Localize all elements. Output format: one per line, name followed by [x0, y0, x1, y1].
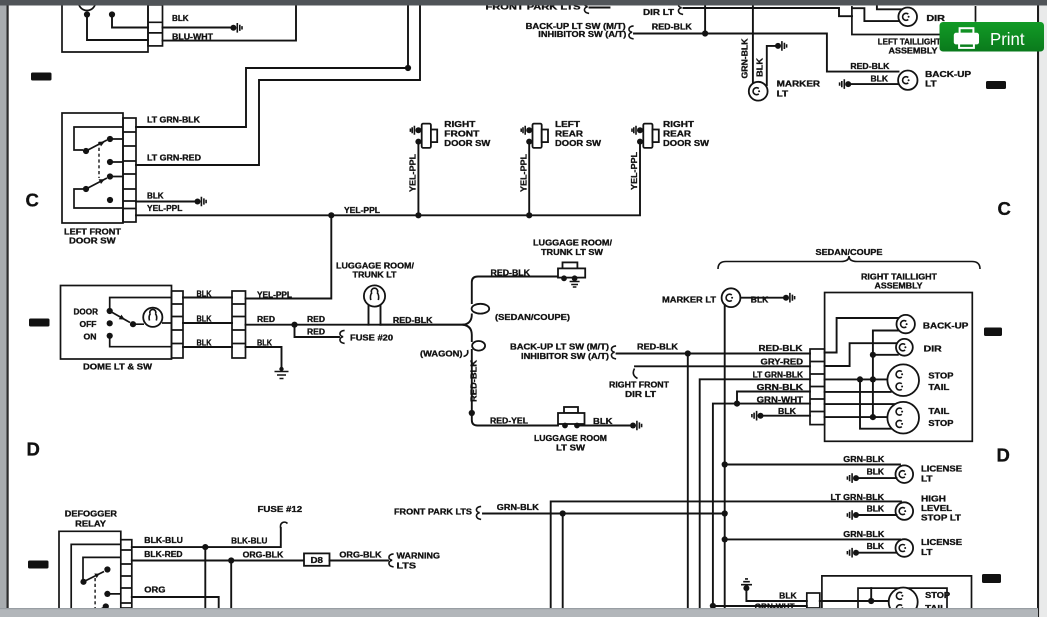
svg-text:ORG-BLK: ORG-BLK [339, 551, 381, 560]
svg-text:RED-BLK: RED-BLK [491, 269, 531, 278]
label GRY-RED [761, 358, 804, 367]
wire GRN-BLK to license lt 2 [725, 538, 900, 540]
wire BLK to ground (door sw) [136, 197, 206, 207]
svg-text:BLK: BLK [867, 505, 885, 514]
wire BLU-WHT going off page top [163, 4, 297, 41]
svg-text:BLK: BLK [593, 417, 613, 426]
svg-text:LT: LT [921, 548, 933, 557]
svg-text:FUSE #20: FUSE #20 [350, 334, 394, 343]
label RIGHT REAR DOOR SW [663, 120, 710, 148]
high level stop lt bulb [896, 502, 914, 520]
BACK-UP bulb [897, 315, 915, 333]
wire LT GRN-BLK to STOP/TAIL bulb [825, 376, 888, 382]
wagon STOP/TAIL bulb [889, 588, 918, 617]
svg-text:D: D [997, 444, 1010, 465]
svg-text:RELAY: RELAY [75, 519, 107, 528]
label BACK-UP [923, 322, 969, 331]
svg-text:RIGHT TAILLIGHT: RIGHT TAILLIGHT [861, 273, 937, 282]
wire BLK license 2 [847, 548, 896, 558]
svg-text:BLK-BLU: BLK-BLU [144, 536, 183, 545]
wire BLK to ground [577, 421, 642, 431]
luggage room trunk lt bulb [364, 285, 385, 306]
svg-text:ORG-BLK: ORG-BLK [243, 551, 284, 560]
wire RED-BLK to left back-up lt [634, 30, 899, 71]
tick mark left 1 [31, 73, 52, 81]
svg-text:D8: D8 [311, 556, 324, 565]
svg-text:LT GRN-BLK: LT GRN-BLK [753, 371, 804, 380]
svg-text:INHIBITOR SW (A/T): INHIBITOR SW (A/T) [538, 30, 626, 39]
label RED-BLK [652, 23, 692, 32]
wire LT GRN-BLK to off page top [136, 4, 411, 127]
label FUSE #20 [350, 334, 394, 343]
wire ORG-BLK to warning lts [330, 554, 394, 567]
labels DOOR OFF ON [74, 307, 99, 341]
dome connector strip 1 [172, 291, 184, 358]
wire LT GRN-BLK to high level stop lt [551, 501, 901, 608]
svg-text:GRN-BLK: GRN-BLK [757, 383, 804, 392]
RED-BLK bus Va down [687, 354, 689, 609]
label LICENSE LT [921, 538, 963, 557]
marker lt top bulb [749, 82, 768, 101]
svg-text:ASSEMBLY: ASSEMBLY [875, 282, 924, 291]
svg-text:LEVEL: LEVEL [921, 504, 952, 513]
wagon connector cell [807, 593, 820, 608]
svg-text:ORG: ORG [144, 586, 165, 595]
svg-text:TRUNK LT SW: TRUNK LT SW [541, 248, 604, 257]
svg-text:ASSEMBLY: ASSEMBLY [889, 47, 939, 56]
wire YEL-PPL drop right front door sw [417, 144, 419, 215]
label DEFOGGER RELAY [65, 509, 117, 528]
svg-text:YEL-PPL: YEL-PPL [409, 154, 418, 192]
label GRN-BLK [843, 455, 884, 464]
print button label [990, 29, 1025, 49]
svg-text:TRUNK LT: TRUNK LT [353, 271, 397, 280]
svg-text:LICENSE: LICENSE [921, 465, 963, 474]
labels TAIL STOP [928, 407, 954, 428]
svg-text:STOP: STOP [928, 371, 954, 380]
svg-text:RED: RED [307, 315, 325, 324]
svg-text:BACK-UP: BACK-UP [923, 322, 969, 331]
left front door switch box [62, 113, 123, 223]
svg-text:BLK: BLK [867, 542, 885, 551]
right front door switch [410, 124, 437, 148]
svg-text:LEFT TAILLIGHT: LEFT TAILLIGHT [878, 38, 941, 47]
svg-text:BLU-WHT: BLU-WHT [172, 33, 213, 42]
label BLK [779, 591, 797, 600]
svg-text:REAR: REAR [555, 130, 583, 139]
dome bulb [143, 308, 162, 327]
wires BLK x3 between strips [183, 298, 232, 348]
interior lamp assembly box (top left, cut off) [62, 0, 148, 52]
label RIGHT FRONT DIR LT [609, 381, 669, 400]
svg-text:LUGGAGE ROOM/: LUGGAGE ROOM/ [336, 262, 415, 271]
svg-text:DOOR: DOOR [74, 307, 99, 316]
row letter C right [998, 198, 1011, 219]
svg-text:LT: LT [925, 80, 937, 89]
label LEFT REAR DOOR SW [555, 120, 602, 148]
label RED-BLK [393, 316, 433, 325]
wire branch down from BLK-RED [230, 561, 232, 609]
wire BLK license 1 [847, 473, 896, 483]
label HIGH LEVEL STOP LT [921, 495, 961, 523]
svg-text:LT: LT [777, 90, 789, 99]
label BLK vertical [756, 58, 765, 77]
wire BLK marker top to ground [767, 41, 787, 85]
svg-text:ON: ON [84, 332, 97, 341]
svg-text:D: D [27, 439, 40, 460]
svg-text:LUGGAGE ROOM: LUGGAGE ROOM [534, 434, 607, 443]
svg-text:YEL-PPL: YEL-PPL [344, 206, 380, 215]
svg-text:DOME LT & SW: DOME LT & SW [83, 363, 153, 372]
wire to BACK-UP bulb [825, 318, 899, 353]
wire RED from dome [246, 322, 464, 328]
wire to DIR bulb [825, 343, 898, 366]
svg-text:RIGHT: RIGHT [663, 120, 694, 129]
wire RED branch to FUSE #20 [295, 325, 345, 344]
svg-text:MARKER LT: MARKER LT [662, 295, 716, 304]
labels BLK-BLU x2 [144, 536, 267, 546]
svg-text:RED-BLK: RED-BLK [652, 23, 692, 32]
left taillight assembly box [852, 6, 976, 35]
svg-text:LT GRN-RED: LT GRN-RED [147, 154, 201, 163]
svg-text:DIR: DIR [926, 14, 945, 23]
svg-text:BLK: BLK [867, 468, 885, 477]
row letter C left [26, 190, 39, 211]
dome light and switch box [61, 286, 172, 360]
svg-text:BACK-UP LT SW (M/T): BACK-UP LT SW (M/T) [510, 342, 609, 351]
svg-text:BLK: BLK [778, 407, 796, 416]
labels BLK x3 [197, 289, 212, 347]
left front door switch internals [74, 127, 123, 208]
svg-text:DIR: DIR [924, 345, 942, 354]
svg-text:INHIBITOR SW (A/T): INHIBITOR SW (A/T) [521, 352, 609, 361]
interior lamp internal wires [87, 15, 148, 41]
svg-text:LEFT FRONT: LEFT FRONT [64, 228, 121, 237]
label LEFT FRONT DOOR SW [64, 228, 121, 246]
label BACK-UP LT [925, 70, 972, 89]
chrome: right page edge and light column [1037, 6, 1047, 617]
print button [940, 22, 1045, 52]
wire GRY-RED row with hook to RIGHT FRONT DIR LT [633, 366, 810, 378]
wire GRN-BLK marker top [752, 4, 754, 84]
labels BLK-RED ORG-BLK [144, 550, 283, 560]
wire GRN-WHT to TAIL/STOP bulb [825, 403, 896, 405]
svg-text:YEL-PPL: YEL-PPL [147, 204, 183, 213]
label RIGHT TAILLIGHT ASSEMBLY [861, 273, 937, 291]
svg-text:SEDAN/COUPE: SEDAN/COUPE [816, 248, 884, 257]
label RED-YEL [490, 417, 528, 426]
luggage room trunk lt bulb leads [369, 306, 381, 325]
wagon taillight assembly box (bottom right) [822, 576, 972, 608]
labels STOP TAIL [928, 371, 954, 392]
label RED-BLK (trunk sw wire) [491, 269, 531, 278]
connector C1 (interior lamp) [148, 5, 163, 46]
wire DIR LT to left taillight [684, 8, 853, 16]
label RIGHT FRONT DOOR SW [444, 120, 491, 148]
wagon inner box [858, 588, 947, 608]
wire RED-BLK stub from top [704, 4, 706, 34]
defogger relay internals [80, 557, 120, 611]
dome switch internals [107, 298, 172, 347]
label LUGGAGE ROOM LT SW [534, 434, 607, 453]
svg-text:DOOR SW: DOOR SW [444, 139, 491, 148]
svg-text:HIGH: HIGH [921, 495, 946, 504]
license lt 1 bulb [896, 465, 914, 483]
svg-text:RED-BLK: RED-BLK [850, 62, 889, 71]
ground (interior lamp BLK) [230, 23, 242, 33]
SEDAN/COUPE overbrace [718, 256, 980, 269]
label YEL-PPL vertical 2 [520, 154, 529, 192]
label DOME LT & SW [83, 363, 153, 372]
tick mark right 1 [986, 81, 1006, 89]
wire branch down from BLK-BLU [204, 547, 206, 608]
svg-text:STOP: STOP [928, 419, 954, 428]
tick mark left 3 [28, 561, 49, 569]
svg-text:YEL-PPL: YEL-PPL [630, 152, 639, 190]
label YEL-PPL vertical 3 [630, 152, 639, 190]
label YEL-PPL [257, 290, 292, 299]
svg-text:RED: RED [257, 315, 275, 324]
svg-text:RED: RED [307, 327, 325, 336]
right taillight assembly box [825, 293, 973, 442]
GRN-BLK bus Vd (marker down) [722, 305, 728, 609]
left rear door switch [521, 124, 548, 148]
label LT GRN-BLK [147, 116, 200, 125]
wire BLK dome to earth ground [246, 347, 289, 379]
fork down to wagon branch [464, 325, 472, 341]
label (WAGON) with squiggle [420, 350, 468, 359]
chrome: top dark bar [0, 0, 1047, 6]
label BLK [867, 542, 885, 551]
label RED-BLK (left backup) [850, 62, 889, 71]
label BLK [751, 296, 769, 305]
svg-text:RIGHT FRONT: RIGHT FRONT [609, 381, 669, 390]
svg-text:BLK: BLK [779, 591, 797, 600]
label GRN-WHT [757, 396, 804, 405]
wire GRN-BLK to license lt 1 [725, 464, 900, 466]
tick mark right 2 [984, 328, 1002, 337]
svg-text:FUSE #12: FUSE #12 [258, 505, 303, 514]
label FRONT PARK LTS [394, 508, 473, 517]
svg-text:RED-BLK: RED-BLK [393, 316, 433, 325]
wire BLK-RED / ORG-BLK row [132, 557, 304, 563]
left DIR bulb [898, 7, 917, 26]
luggage room trunk lt switch (pushbutton) [558, 262, 585, 287]
wire GRN-BLK front park lts [476, 506, 723, 519]
svg-text:DOOR SW: DOOR SW [555, 139, 602, 148]
labels ORG-BLK WARNING LTS [339, 551, 440, 571]
STOP/TAIL bulb [887, 364, 919, 396]
row letter D right [997, 444, 1010, 465]
wagon feed wire [820, 588, 890, 604]
label GRN-BLK vertical [741, 38, 750, 78]
svg-text:RED-YEL: RED-YEL [490, 417, 528, 426]
wire YEL-PPL dome to bus [246, 217, 332, 299]
svg-text:BLK: BLK [197, 289, 212, 298]
svg-text:BLK: BLK [172, 14, 189, 23]
label MARKER LT [777, 80, 821, 99]
hop loop (SEDAN/COUPE) [472, 304, 490, 314]
svg-text:BLK: BLK [257, 338, 272, 347]
marker lt (right) bulb [722, 288, 741, 307]
label RED-BLK (row) [759, 344, 803, 353]
svg-text:(SEDAN/COUPE): (SEDAN/COUPE) [495, 313, 570, 322]
labels STOP TAIL [925, 591, 951, 613]
svg-text:LT: LT [921, 475, 933, 484]
label RED-BLK vertical [470, 360, 479, 402]
label BLK [778, 407, 796, 416]
label BLU-WHT [172, 33, 213, 42]
label BLK [257, 338, 272, 347]
wagon earth ground (inverted) [741, 579, 807, 601]
label YEL-PPL on bus [344, 206, 380, 215]
label BLK [147, 192, 164, 201]
label GRN-BLK [497, 503, 539, 512]
chrome: bottom gray bar [0, 608, 1038, 617]
svg-text:LT SW: LT SW [556, 444, 586, 453]
svg-text:BLK: BLK [751, 296, 769, 305]
svg-text:GRN-BLK: GRN-BLK [497, 503, 539, 512]
label MARKER LT [662, 295, 716, 304]
label SEDAN/COUPE [816, 248, 884, 257]
svg-text:RED-BLK: RED-BLK [470, 360, 479, 402]
wire BLK ground row [825, 414, 888, 420]
hop loop (WAGON) [469, 341, 558, 426]
right rear door switch [632, 124, 659, 148]
svg-text:TAIL: TAIL [928, 383, 949, 392]
fork up to trunk lt sw [464, 277, 561, 325]
svg-text:RED-BLK: RED-BLK [759, 344, 803, 353]
label LICENSE LT [921, 465, 963, 484]
label BLK [871, 75, 889, 84]
svg-text:RED-BLK: RED-BLK [637, 342, 678, 351]
wire GRN-WHT row, down bus Vc [710, 404, 810, 610]
label BACK-UP LT SW (M/T) INHIBITOR SW (A/T) [510, 342, 616, 361]
label LT GRN-BLK [831, 493, 885, 502]
label (SEDAN/COUPE) [495, 313, 570, 322]
svg-text:BLK: BLK [871, 75, 889, 84]
svg-text:BLK: BLK [147, 192, 164, 201]
wire BLK-BLU with FUSE #12 [132, 522, 288, 550]
labels RED RED RED [257, 315, 325, 337]
label YEL-PPL [147, 204, 183, 213]
svg-text:DOOR SW: DOOR SW [663, 139, 710, 148]
svg-text:(WAGON): (WAGON) [420, 350, 463, 359]
label DIR [926, 14, 945, 23]
label DIR LT with squiggle [643, 1, 683, 16]
svg-text:LICENSE: LICENSE [921, 538, 963, 547]
label LT GRN-BLK [753, 371, 804, 380]
svg-text:BLK: BLK [756, 58, 765, 77]
svg-text:WARNING: WARNING [397, 552, 441, 561]
label DIR [924, 345, 942, 354]
label FRONT PARK LTS (top, clipped) [486, 0, 610, 13]
svg-text:DEFOGGER: DEFOGGER [65, 509, 117, 518]
YEL-PPL bus wire [136, 144, 640, 219]
wire BLK high level [847, 510, 896, 520]
wire GRN-BLK to STOP/TAIL bulb lower [825, 391, 891, 393]
svg-text:LT GRN-BLK: LT GRN-BLK [147, 116, 200, 125]
svg-text:C: C [26, 190, 39, 211]
wire BLK marker to ground [740, 293, 794, 303]
dome connector strip 2 [232, 291, 246, 358]
row letter D left [27, 439, 40, 460]
svg-text:DIR LT: DIR LT [625, 390, 656, 399]
svg-text:BACK-UP: BACK-UP [925, 70, 972, 79]
svg-text:BLK-RED: BLK-RED [144, 550, 182, 559]
svg-text:TAIL: TAIL [928, 407, 949, 416]
label YEL-PPL vertical 1 [409, 154, 418, 192]
svg-text:GRN-WHT: GRN-WHT [757, 396, 804, 405]
svg-text:LT GRN-BLK: LT GRN-BLK [831, 493, 885, 502]
label LUGGAGE ROOM/ TRUNK LT SW [533, 238, 613, 257]
label LEFT TAILLIGHT ASSEMBLY [878, 38, 941, 56]
svg-text:YEL-PPL: YEL-PPL [520, 154, 529, 192]
svg-text:FRONT PARK LTS: FRONT PARK LTS [394, 508, 473, 517]
svg-text:STOP LT: STOP LT [921, 514, 961, 523]
svg-text:C: C [998, 198, 1011, 219]
wire BLK row from ground [752, 411, 810, 421]
wire BLK with ground (left backup) [840, 79, 899, 89]
defogger relay inner box [71, 544, 121, 608]
chrome: left gray strip with page edge [0, 6, 9, 617]
label BLK [172, 14, 189, 23]
license lt 2 bulb [896, 539, 914, 557]
label BACK-UP LT SW (M/T) INHIBITOR SW (A/T) top [526, 22, 634, 39]
wire RED-BLK (backup sw row) [617, 350, 811, 356]
svg-text:LTS: LTS [397, 561, 417, 570]
label LT GRN-RED [147, 154, 201, 163]
left taillight inner feeds [852, 4, 901, 21]
tick mark right 3 [982, 574, 1001, 583]
ground branch V2 [870, 331, 899, 418]
svg-text:BLK-BLU: BLK-BLU [231, 537, 267, 546]
label BLK [867, 468, 885, 477]
wire RED-BLK to fork [381, 324, 464, 326]
svg-text:LEFT: LEFT [555, 120, 580, 129]
label GRN-BLK [757, 383, 804, 392]
svg-text:DIR LT: DIR LT [643, 8, 674, 17]
svg-text:DOOR SW: DOOR SW [69, 237, 116, 246]
print button printer icon [954, 28, 979, 48]
wire LT GRN-RED to off page top [136, 4, 420, 165]
svg-text:OFF: OFF [80, 320, 97, 329]
DIR bulb [896, 339, 913, 356]
svg-text:YEL-PPL: YEL-PPL [257, 290, 292, 299]
defogger relay connector [121, 540, 132, 608]
svg-text:Print: Print [990, 29, 1025, 49]
label ORG [144, 586, 165, 595]
label FUSE #12 [258, 505, 303, 514]
svg-text:BLK: BLK [197, 314, 212, 323]
left back-up lt bulb [898, 71, 917, 90]
defogger relay outer box [59, 531, 121, 608]
svg-text:GRY-RED: GRY-RED [761, 358, 804, 367]
right taillight connector [810, 349, 825, 425]
svg-text:STOP: STOP [925, 591, 951, 600]
wire BLK to ground [163, 27, 231, 29]
diode D8 box [304, 553, 330, 565]
svg-text:GRN-BLK: GRN-BLK [843, 530, 884, 539]
svg-text:FRONT: FRONT [444, 130, 479, 139]
wire ORG [132, 597, 219, 608]
svg-text:RIGHT: RIGHT [444, 120, 475, 129]
label BLK [867, 505, 885, 514]
label GRN-BLK [843, 530, 884, 539]
stop branch V1 [860, 379, 891, 428]
svg-text:GRN-BLK: GRN-BLK [843, 455, 884, 464]
label RED-BLK [637, 342, 678, 351]
